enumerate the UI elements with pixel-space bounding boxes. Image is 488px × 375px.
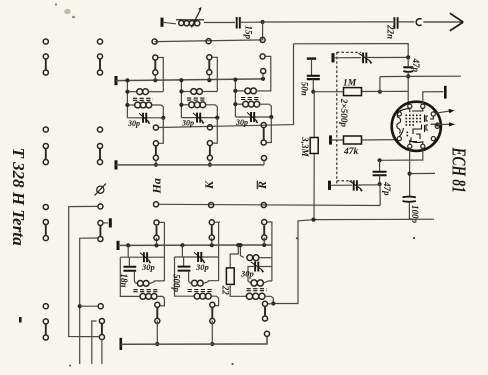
svg-text:30p: 30p	[235, 118, 248, 127]
svg-text:K: K	[202, 180, 216, 190]
svg-text:30p: 30p	[181, 119, 194, 128]
svg-text:3,3M: 3,3M	[300, 136, 310, 157]
svg-text:18n: 18n	[119, 274, 129, 288]
svg-text:T 328 H Terta: T 328 H Terta	[9, 148, 28, 247]
svg-text:ECH 81: ECH 81	[448, 147, 470, 193]
svg-text:1M: 1M	[343, 79, 357, 89]
svg-text:47p: 47p	[411, 58, 421, 73]
svg-text:30p: 30p	[127, 119, 140, 128]
svg-text:30p: 30p	[240, 269, 254, 279]
svg-text:47k: 47k	[343, 147, 359, 157]
svg-text:30p: 30p	[195, 262, 209, 272]
svg-text:500p: 500p	[172, 274, 182, 293]
svg-text:Ha: Ha	[150, 178, 164, 194]
svg-text:30p: 30p	[141, 262, 155, 272]
svg-text:2×500p: 2×500p	[339, 98, 349, 128]
svg-text:15p: 15p	[244, 26, 254, 40]
svg-text:22: 22	[221, 285, 231, 296]
svg-text:100p: 100p	[410, 205, 420, 224]
svg-text:22n: 22n	[386, 24, 396, 39]
svg-text:47p: 47p	[382, 181, 392, 196]
svg-text:50n: 50n	[300, 82, 310, 96]
